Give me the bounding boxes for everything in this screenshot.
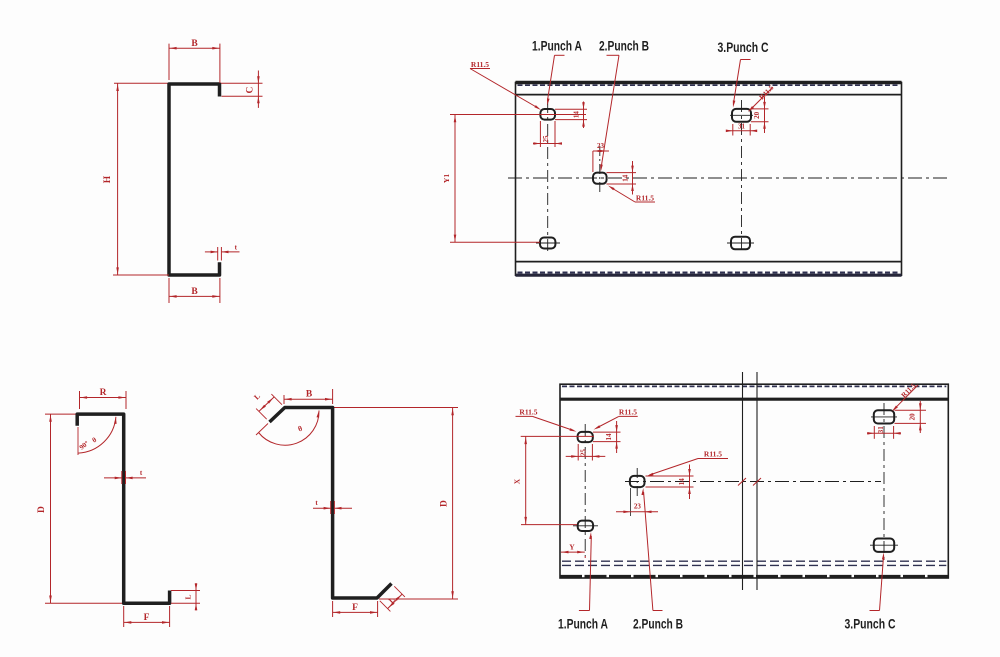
plate bottom hatch band [518, 272, 900, 274]
dim 14 punch B [607, 161, 637, 195]
dim L top lip (bottom-middle profile) [252, 392, 282, 420]
dim D web height (bottom-middle profile) [440, 408, 454, 600]
svg-text:H: H [103, 175, 113, 183]
svg-text:X: X [513, 478, 522, 484]
punch hole B1 [593, 173, 607, 184]
dim B top flange width [169, 39, 220, 83]
dim t thickness (bottom-middle profile) [313, 499, 352, 514]
plate top hatch band (bottom drawing) [562, 385, 946, 387]
svg-text:R: R [100, 388, 107, 398]
break lines [738, 372, 761, 590]
svg-text:1.Punch A: 1.Punch A [558, 616, 608, 632]
plate outline (top-right drawing) [516, 83, 902, 276]
label 3.Punch C [718, 40, 769, 55]
note R11.5 punch A right [594, 408, 638, 430]
svg-text:R11.5: R11.5 [471, 60, 489, 69]
plate inner bottom line [516, 261, 902, 263]
svg-text:R11.5: R11.5 [704, 450, 722, 459]
svg-text:25: 25 [542, 135, 550, 143]
punch hole A1 centerline (bottom) [584, 424, 586, 556]
punch hole A1 (bottom drawing) [578, 432, 593, 442]
punch hole C1 crossline [730, 114, 753, 116]
punch hole C2 crossline [727, 242, 754, 244]
dim t thickness (bottom-left profile) [104, 469, 146, 484]
svg-text:14: 14 [605, 433, 613, 441]
dim 20 punch C [751, 97, 769, 133]
dim 25 punch A (bottom) [566, 444, 606, 461]
punch hole C1 crossline (bottom) [871, 416, 897, 418]
punch hole C1 (bottom drawing) [874, 410, 894, 423]
svg-text:R11.5: R11.5 [636, 194, 654, 203]
svg-text:20: 20 [753, 111, 761, 119]
dim t thickness [205, 243, 240, 260]
dim 31 punch C (bottom) [867, 426, 901, 439]
svg-text:B: B [306, 390, 313, 400]
dim R top flange (bottom-left profile) [80, 388, 127, 409]
punch hole A1 centerline [547, 101, 549, 253]
dim X (bottom drawing) [513, 436, 595, 524]
C-profile section outline [169, 84, 220, 275]
leader 1.Punch A [547, 55, 565, 105]
label 1.Punch A (bottom) [558, 616, 608, 632]
dim 23 punch B [593, 142, 609, 172]
dim D web height (bottom-left profile) [37, 414, 52, 603]
dim C lip length [222, 71, 263, 108]
svg-text:14: 14 [573, 111, 581, 119]
punch hole C1 [732, 109, 751, 122]
dim D extension lines (bottom-middle profile) [334, 408, 458, 600]
label 2.Punch B [599, 39, 649, 54]
svg-text:B: B [191, 39, 198, 49]
plate bottom dashed line 2 [562, 564, 946, 566]
svg-text:31: 31 [877, 426, 885, 434]
note R11.5 punch B [608, 186, 655, 203]
note R11.5 punch C [748, 83, 776, 112]
plate top hatch band [518, 84, 900, 86]
plate inner top line [516, 94, 902, 96]
dim Y (bottom drawing) [561, 542, 585, 558]
leader 3.Punch C (bottom) [870, 553, 885, 611]
svg-text:20: 20 [909, 413, 917, 421]
svg-text:14: 14 [678, 478, 686, 486]
punch hole B1 (bottom drawing) [630, 476, 645, 487]
dim 14 punch B (bottom) [646, 465, 694, 500]
svg-text:F: F [352, 603, 358, 613]
leader 3.Punch C [733, 60, 751, 108]
angle theta (bottom-middle profile) [256, 411, 319, 446]
svg-text:1.Punch A: 1.Punch A [532, 39, 582, 54]
leader 2.Punch B [600, 55, 619, 171]
dim F bottom flange (bottom-left profile) [124, 606, 170, 627]
dim F bottom flange (bottom-middle profile) [333, 601, 378, 617]
dim D extension lines (bottom-left profile) [45, 414, 123, 603]
plate bottom dashed line 1 [562, 560, 946, 562]
dim 23 punch B (bottom) [616, 488, 658, 516]
punch hole A2 [540, 238, 555, 249]
horizontal centerline (bottom drawing) [625, 481, 881, 483]
dim 14 punch A hole [450, 102, 587, 129]
punch hole C1 centerline [741, 100, 743, 254]
dim B bottom flange width [169, 278, 220, 303]
punch hole B1 centerline (bottom) [636, 468, 638, 496]
plate thick top line (bottom drawing) [560, 398, 948, 401]
svg-text:Y: Y [569, 542, 575, 551]
label 3.Punch C (bottom) [845, 616, 896, 632]
svg-text:F: F [144, 613, 150, 623]
svg-text:B: B [191, 287, 198, 297]
leader 2.Punch B (bottom) [641, 488, 662, 611]
punch hole B1 centerline [599, 146, 601, 194]
svg-text:2.Punch B: 2.Punch B [633, 616, 683, 632]
dim 31 punch C [726, 122, 757, 135]
svg-text:L: L [184, 594, 193, 599]
note R11.5 punch B (bottom) [647, 450, 729, 477]
svg-text:R11.5: R11.5 [519, 408, 537, 417]
punch hole C2 [731, 237, 750, 250]
svg-text:3.Punch C: 3.Punch C [845, 616, 896, 632]
dim L bottom lip (bottom-middle profile) [380, 586, 405, 611]
punch hole C2 (bottom drawing) [874, 539, 894, 552]
svg-text:Y1: Y1 [442, 174, 451, 183]
plate thick bottom line (bottom drawing) [560, 575, 948, 578]
dim H web height [103, 83, 169, 275]
label 1.Punch A [532, 39, 582, 54]
note R11.5 punch C (bottom) [892, 381, 918, 411]
dim C extension line [114, 82, 263, 84]
dim 14 punch A (bottom) [593, 421, 621, 453]
svg-text:C: C [246, 86, 256, 93]
svg-text:D: D [37, 506, 47, 513]
punch hole A2 crossline [536, 242, 560, 244]
note R11.5 punch A [470, 60, 541, 110]
svg-text:14: 14 [622, 174, 630, 182]
svg-text:3.Punch C: 3.Punch C [718, 40, 769, 55]
dim L lip (bottom-left profile) [171, 583, 200, 611]
svg-text:D: D [440, 500, 450, 507]
note R11.5 punch A left [516, 408, 577, 432]
Z-profile section (90-deg lips) [77, 414, 169, 603]
svg-text:25: 25 [580, 449, 588, 457]
punch hole A2 (bottom drawing) [578, 521, 593, 531]
label 2.Punch B (bottom) [633, 616, 683, 632]
punch hole A2 crossline (bottom) [573, 525, 598, 527]
dim Y1 [442, 115, 540, 243]
Z-profile section (45-deg lips) [270, 408, 392, 599]
leader 1.Punch A (bottom) [579, 532, 592, 611]
svg-text:23: 23 [634, 503, 642, 511]
svg-text:31: 31 [738, 122, 746, 130]
dim 25 punch A [533, 121, 562, 147]
dim B top flange (bottom-middle profile) [284, 389, 333, 404]
plate outline (bottom-right drawing) [560, 384, 948, 578]
dim 20 punch C (bottom) [895, 401, 927, 433]
horizontal centerline [508, 177, 947, 179]
svg-text:23: 23 [597, 142, 605, 150]
punch hole C2 crossline (bottom) [870, 544, 898, 546]
punch hole C centerline (bottom) [883, 403, 885, 560]
svg-text:R11.5: R11.5 [619, 408, 637, 417]
angle 90 deg theta (bottom-left profile) [78, 417, 117, 455]
punch hole A1 [540, 109, 555, 120]
svg-text:2.Punch B: 2.Punch B [599, 39, 649, 54]
